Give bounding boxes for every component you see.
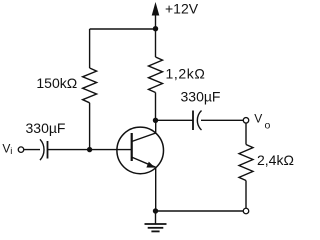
wire emitter to bottom terminal [156, 210, 244, 212]
power supply +12V arrow [152, 2, 160, 29]
resistor R 1,2k (collector) [149, 29, 163, 121]
svg-text:V: V [254, 111, 262, 125]
svg-text:330µF: 330µF [26, 120, 66, 136]
node junction at supply [153, 26, 158, 31]
node junction emitter/ground [153, 208, 158, 213]
capacitor C2 330uF output [193, 111, 202, 131]
input terminal Vi [18, 147, 24, 153]
svg-text:330µF: 330µF [181, 89, 221, 105]
wire input cap to base [48, 149, 132, 151]
ground [145, 211, 167, 231]
wire Vi to input cap [24, 149, 40, 151]
resistor RL 2,4k [239, 123, 253, 208]
wire output cap to Vo [201, 119, 243, 121]
wire collector to output cap [156, 119, 194, 121]
svg-text:i: i [10, 146, 12, 157]
node junction base / 150k [87, 147, 92, 152]
svg-text:150kΩ: 150kΩ [36, 75, 77, 91]
node junction collector/output [153, 118, 158, 123]
svg-text:1,2kΩ: 1,2kΩ [166, 65, 206, 81]
transistor Q1 [117, 118, 164, 174]
wire emitter down [155, 167, 157, 211]
output terminal Vo [243, 118, 249, 124]
svg-text:2,4kΩ: 2,4kΩ [257, 152, 294, 168]
capacitor C1 330uF input (curved plate) [40, 139, 48, 160]
resistor R 150k (base bias) [83, 29, 97, 150]
wire top rail from R1 top to supply [90, 28, 156, 30]
svg-text:+12V: +12V [165, 1, 199, 17]
bottom terminal (open circle) [243, 208, 249, 214]
svg-text:o: o [265, 120, 271, 132]
